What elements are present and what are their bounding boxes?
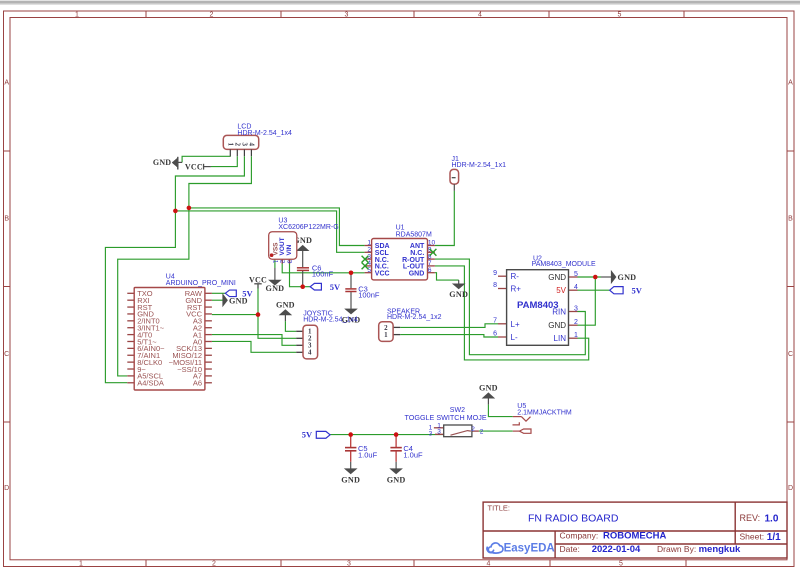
svg-text:TITLE:: TITLE: (488, 503, 511, 512)
svg-text:Drawn By:: Drawn By: (657, 544, 696, 554)
svg-text:4: 4 (247, 143, 255, 147)
svg-text:GND: GND (449, 290, 468, 299)
svg-text:B: B (788, 216, 793, 223)
svg-text:5V: 5V (632, 285, 643, 295)
svg-text:VCC: VCC (249, 276, 267, 285)
svg-text:100nF: 100nF (358, 291, 380, 300)
svg-text:HDR-M-2.54_1x4: HDR-M-2.54_1x4 (303, 317, 358, 324)
svg-text:4: 4 (574, 284, 578, 291)
svg-text:Company:: Company: (560, 531, 599, 541)
svg-text:L+: L+ (511, 320, 520, 329)
svg-text:6: 6 (428, 267, 432, 274)
svg-text:GND: GND (341, 476, 360, 485)
svg-text:HDR-M-2.54_1x2: HDR-M-2.54_1x2 (387, 314, 442, 321)
svg-text:D: D (4, 485, 9, 492)
svg-text:Date:: Date: (560, 544, 580, 554)
svg-text:2: 2 (480, 428, 484, 435)
svg-text:5: 5 (574, 271, 578, 278)
svg-text:VIN: VIN (286, 244, 293, 255)
svg-text:GND: GND (548, 321, 566, 330)
svg-text:Sheet:: Sheet: (740, 532, 765, 542)
svg-text:GND: GND (618, 273, 637, 282)
svg-text:GND: GND (548, 273, 566, 282)
svg-text:HDR-M-2.54_1x1: HDR-M-2.54_1x1 (452, 162, 507, 169)
svg-text:1.0uF: 1.0uF (358, 451, 378, 460)
svg-text:2: 2 (210, 12, 214, 19)
svg-text:7: 7 (493, 318, 497, 325)
svg-text:HDR-M-2.54_1x4: HDR-M-2.54_1x4 (237, 130, 292, 137)
svg-text:B: B (4, 216, 9, 223)
svg-text:GND: GND (479, 384, 498, 393)
svg-text:1/1: 1/1 (767, 532, 781, 543)
svg-text:VCC: VCC (185, 163, 203, 172)
svg-text:VOUT: VOUT (279, 237, 286, 255)
svg-text:2022-01-04: 2022-01-04 (592, 544, 641, 555)
svg-text:1.0: 1.0 (765, 513, 779, 524)
svg-text:5V: 5V (556, 286, 566, 295)
svg-text:4: 4 (478, 12, 482, 19)
svg-text:1: 1 (384, 331, 388, 339)
svg-text:R-: R- (511, 272, 520, 281)
svg-text:VCC: VCC (375, 270, 390, 277)
svg-text:2: 2 (574, 319, 578, 326)
svg-text:8: 8 (493, 282, 497, 289)
svg-text:GND: GND (229, 296, 248, 305)
svg-text:GND: GND (387, 476, 406, 485)
svg-text:GND: GND (153, 158, 171, 167)
svg-text:A: A (4, 80, 9, 87)
svg-text:5V: 5V (330, 282, 341, 292)
svg-text:D: D (788, 485, 793, 492)
svg-text:ARDUINO_PRO_MINI: ARDUINO_PRO_MINI (166, 280, 236, 287)
svg-text:5: 5 (619, 561, 623, 568)
svg-text:GND: GND (409, 270, 425, 277)
svg-text:LIN: LIN (554, 334, 567, 343)
svg-text:2.1MMJACKTHM: 2.1MMJACKTHM (517, 409, 572, 416)
svg-text:3: 3 (240, 143, 248, 147)
svg-text:4: 4 (487, 561, 491, 568)
svg-text:RDA5807M: RDA5807M (396, 231, 432, 238)
svg-text:EasyEDA: EasyEDA (504, 543, 555, 555)
svg-text:1: 1 (574, 332, 578, 339)
svg-text:3: 3 (429, 431, 433, 438)
svg-text:1: 1 (75, 12, 79, 19)
svg-text:REV:: REV: (740, 513, 761, 523)
svg-text:1: 1 (79, 561, 83, 568)
svg-text:100nF: 100nF (312, 270, 334, 279)
svg-text:3: 3 (574, 306, 578, 313)
svg-text:PAM8403_MODULE: PAM8403_MODULE (532, 261, 596, 268)
svg-text:3: 3 (347, 561, 351, 568)
svg-text:1: 1 (226, 143, 234, 147)
svg-text:GND: GND (266, 284, 285, 293)
svg-text:2: 2 (212, 561, 216, 568)
svg-text:GND: GND (276, 300, 295, 309)
svg-text:2: 2 (233, 143, 241, 147)
svg-text:5: 5 (618, 12, 622, 19)
svg-text:A6: A6 (193, 379, 202, 388)
svg-text:FN RADIO BOARD: FN RADIO BOARD (528, 512, 619, 524)
svg-text:A: A (788, 80, 793, 87)
svg-text:A4/SDA: A4/SDA (137, 379, 164, 388)
svg-text:mengkuk: mengkuk (699, 544, 741, 555)
svg-text:5V: 5V (302, 429, 313, 439)
svg-text:PAM8403: PAM8403 (517, 300, 559, 311)
svg-text:3: 3 (437, 429, 441, 436)
svg-text:6: 6 (493, 331, 497, 338)
svg-text:TOGGLE SWITCH MOJE: TOGGLE SWITCH MOJE (405, 413, 487, 422)
svg-text:2: 2 (471, 426, 475, 433)
svg-text:XC6206P122MR-G: XC6206P122MR-G (278, 224, 338, 231)
svg-text:R+: R+ (511, 285, 522, 294)
svg-text:C: C (4, 351, 9, 358)
svg-text:1.0uF: 1.0uF (403, 451, 423, 460)
svg-text:C: C (788, 351, 793, 358)
svg-text:L-: L- (511, 333, 518, 342)
svg-text:3: 3 (345, 12, 349, 19)
svg-text:9: 9 (493, 270, 497, 277)
svg-text:ROBOMECHA: ROBOMECHA (603, 531, 666, 542)
svg-text:4: 4 (308, 349, 312, 357)
